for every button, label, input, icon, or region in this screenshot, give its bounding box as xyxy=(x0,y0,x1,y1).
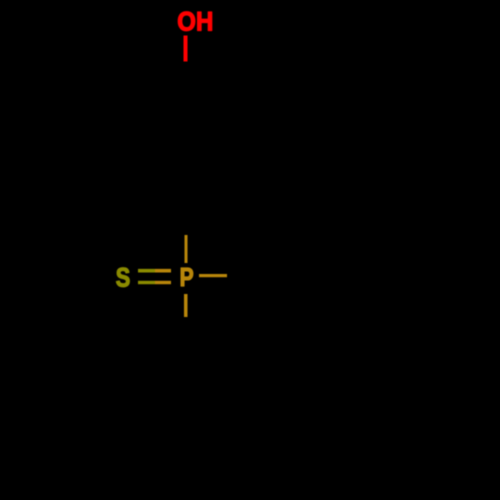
wire S=P double bond top line P half xyxy=(155,269,171,273)
wire bond P-phenyl down (P half) xyxy=(184,294,188,317)
wire S=P double bond bottom line S half xyxy=(138,281,155,284)
wire bond P-C4 up (P half) xyxy=(185,235,188,263)
svg-text:S: S xyxy=(116,262,131,292)
svg-text:P: P xyxy=(180,262,194,292)
wire bond O-C1 (red half) xyxy=(184,36,188,62)
svg-text:OH: OH xyxy=(177,6,213,36)
wire bond P-phenyl right (P half) xyxy=(199,274,227,277)
wire S=P double bond bottom line P half xyxy=(155,281,171,284)
wire S=P double bond top line S half xyxy=(138,269,155,273)
